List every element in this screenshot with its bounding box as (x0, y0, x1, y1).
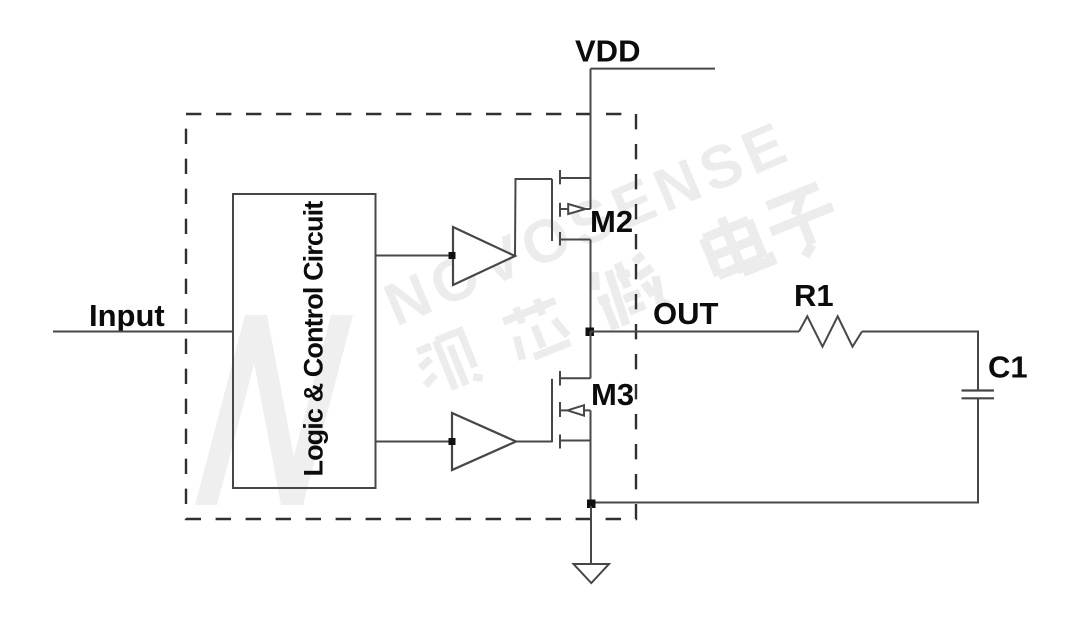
svg-text:C1: C1 (988, 350, 1028, 385)
junction: buffer B input node (449, 438, 456, 445)
resistor R1 (799, 316, 862, 346)
wire ground rail (591, 502, 978, 504)
wire VDD rail (591, 68, 716, 70)
svg-text:M2: M2 (590, 204, 633, 239)
wire M3 source to ground node (590, 410, 592, 502)
wire VDD down to M2 source (590, 69, 592, 209)
svg-text:M3: M3 (591, 377, 634, 412)
svg-text:R1: R1 (794, 278, 834, 313)
wire OUT node to R1 (590, 331, 799, 333)
junction: OUT node (586, 328, 595, 337)
wire U1 to buffer B input (376, 441, 453, 443)
buffer B (lower gate driver) (452, 413, 516, 470)
IC boundary box (dashed) (186, 114, 636, 519)
wire: Input to U1 (53, 331, 233, 333)
wire R1 to C1 top plate (862, 332, 978, 391)
transistor M3 (low-side MOSFET) (552, 371, 591, 449)
svg-text:Logic & Control Circuit: Logic & Control Circuit (299, 201, 329, 477)
block U1 Logic &amp; Control Circuit (233, 194, 376, 488)
wire M2 drain to OUT node (590, 240, 592, 333)
svg-text:VDD: VDD (575, 34, 640, 69)
junction: ground node (587, 500, 596, 509)
ground symbol (574, 564, 610, 583)
transistor M2 (high-side MOSFET) (552, 170, 591, 246)
capacitor C1 (962, 391, 995, 399)
wire ground node to ground symbol (590, 506, 592, 564)
svg-text:Input: Input (89, 298, 165, 333)
wire C1 bottom plate to ground rail (977, 398, 979, 503)
wire U1 to buffer A input (376, 255, 453, 257)
wire buffer B output to M3 gate (516, 441, 552, 443)
wire buffer A output to M2 gate (515, 179, 552, 256)
buffer A (upper gate driver) (453, 227, 515, 285)
svg-text:OUT: OUT (653, 296, 719, 331)
junction: buffer A input node (449, 252, 456, 259)
wire OUT node to M3 drain (590, 332, 592, 378)
